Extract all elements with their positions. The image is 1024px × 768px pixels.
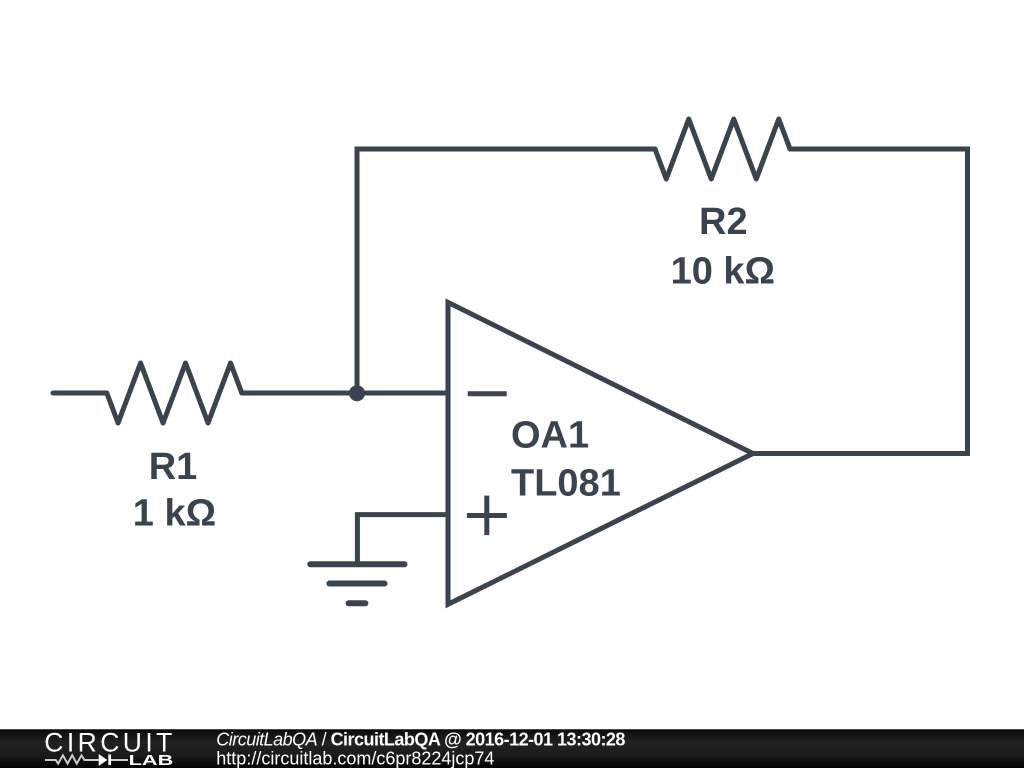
svg-text:1 kΩ: 1 kΩ [133, 492, 216, 534]
svg-text:CircuitLabQA / CircuitLabQA @: CircuitLabQA / CircuitLabQA @ 2016-12-01… [216, 730, 625, 750]
svg-text:http://circuitlab.com/c6pr8224: http://circuitlab.com/c6pr8224jcp74 [216, 749, 494, 768]
svg-text:R1: R1 [149, 446, 198, 488]
svg-text:LAB: LAB [129, 753, 174, 768]
svg-text:TL081: TL081 [511, 462, 621, 504]
svg-text:10 kΩ: 10 kΩ [671, 250, 775, 292]
svg-text:R2: R2 [699, 201, 748, 243]
svg-text:OA1: OA1 [511, 415, 589, 457]
